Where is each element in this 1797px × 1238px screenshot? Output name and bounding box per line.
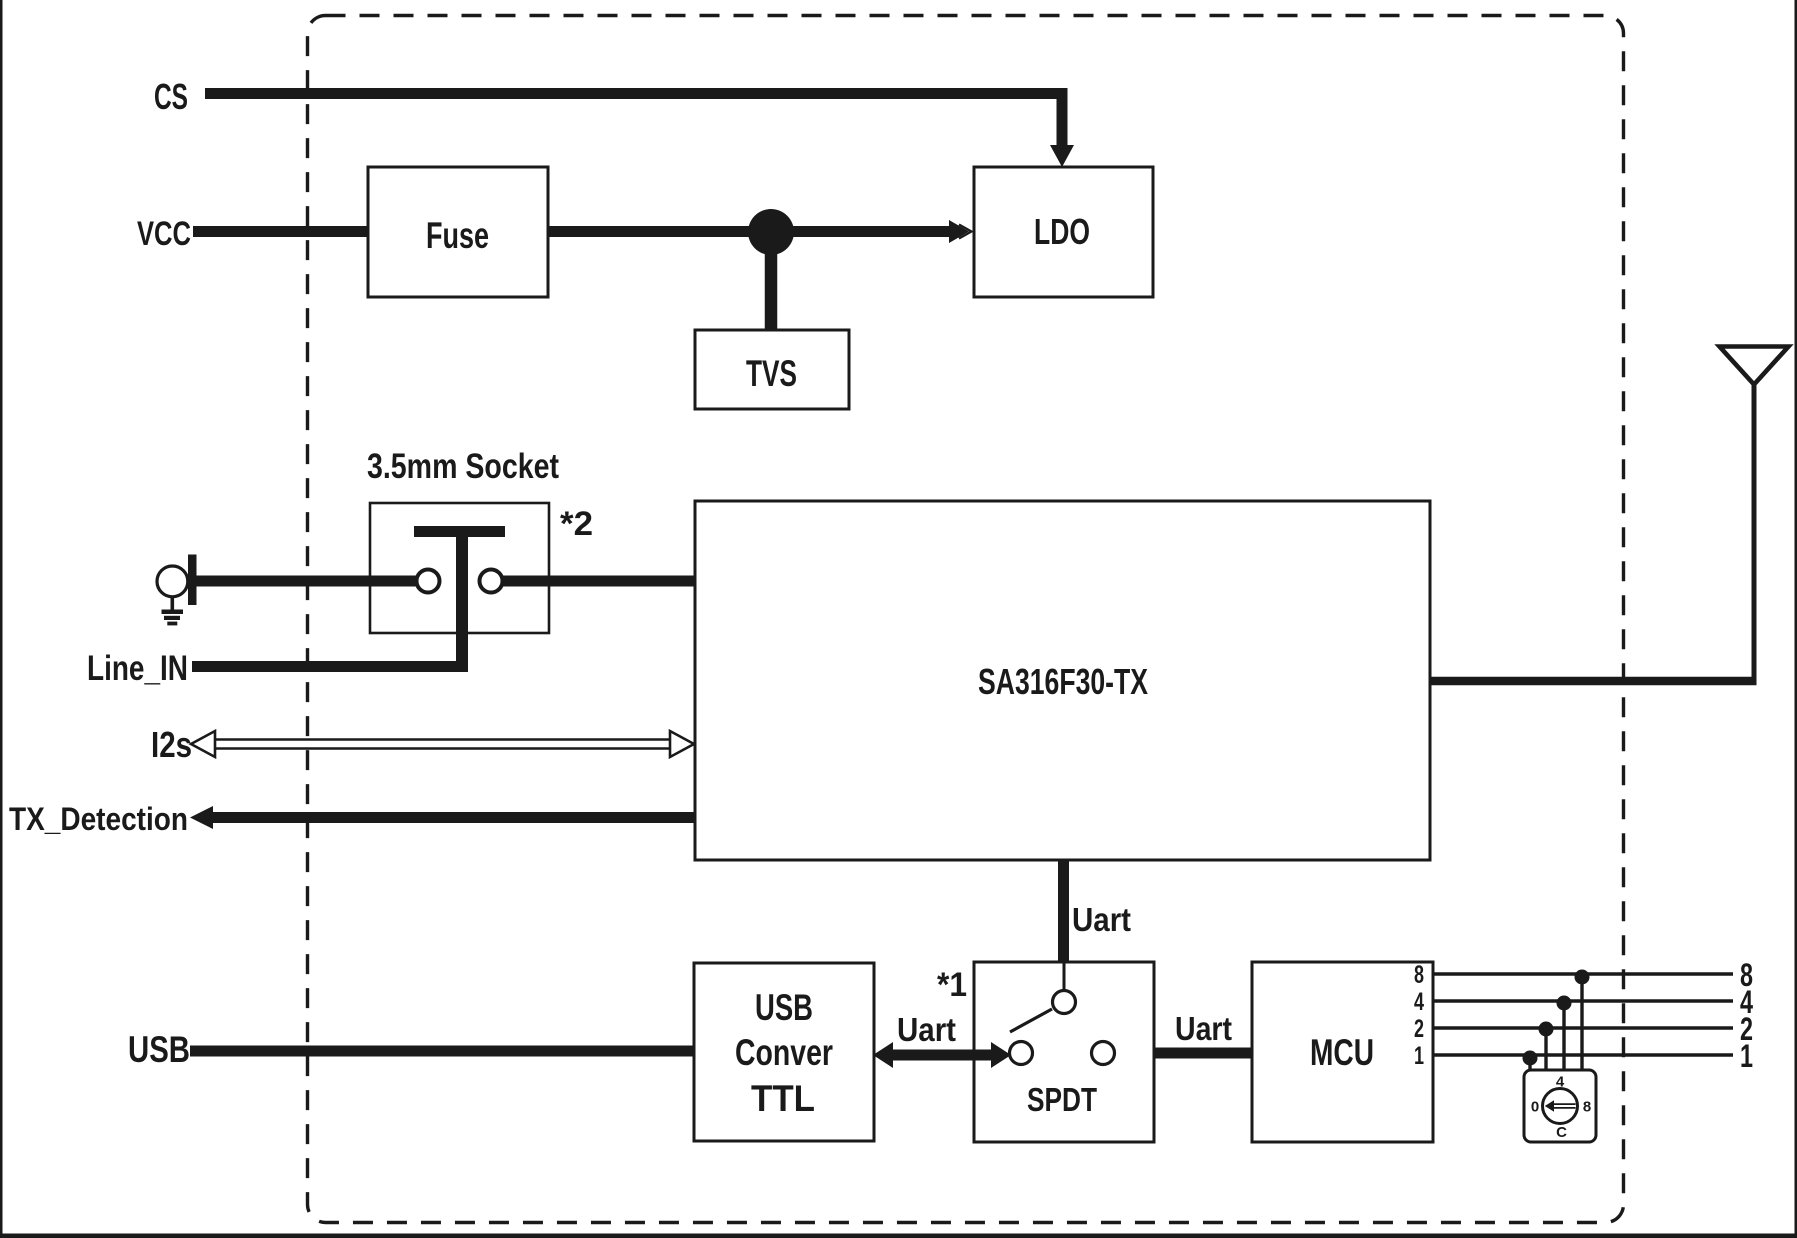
svg-text:C: C	[1556, 1124, 1567, 1141]
svg-text:Uart: Uart	[897, 1011, 956, 1048]
svg-text:USB: USB	[755, 987, 813, 1028]
svg-text:MCU: MCU	[1310, 1032, 1374, 1073]
svg-text:Line_IN: Line_IN	[87, 649, 188, 688]
svg-text:4: 4	[1414, 988, 1424, 1016]
svg-text:SA316F30-TX: SA316F30-TX	[978, 661, 1148, 702]
svg-text:USB: USB	[128, 1029, 190, 1070]
svg-text:4: 4	[1556, 1073, 1565, 1090]
svg-text:VCC: VCC	[137, 215, 191, 253]
svg-text:SPDT: SPDT	[1027, 1081, 1097, 1118]
svg-text:I2s: I2s	[151, 724, 192, 765]
svg-text:0: 0	[1531, 1099, 1539, 1116]
svg-text:TTL: TTL	[751, 1078, 815, 1119]
svg-text:CS: CS	[154, 76, 188, 117]
svg-text:TX_Detection: TX_Detection	[9, 801, 188, 837]
svg-text:Fuse: Fuse	[426, 215, 489, 256]
svg-text:1: 1	[1414, 1042, 1424, 1070]
svg-text:3.5mm Socket: 3.5mm Socket	[367, 447, 559, 486]
svg-text:Conver: Conver	[735, 1032, 833, 1073]
svg-text:TVS: TVS	[746, 353, 797, 394]
svg-text:*1: *1	[937, 966, 967, 1004]
svg-text:*2: *2	[560, 505, 593, 543]
svg-text:LDO: LDO	[1034, 211, 1090, 252]
svg-text:8: 8	[1414, 961, 1424, 989]
svg-text:Uart: Uart	[1175, 1010, 1232, 1047]
svg-text:2: 2	[1414, 1015, 1424, 1043]
svg-text:Uart: Uart	[1072, 901, 1131, 938]
svg-text:1: 1	[1740, 1038, 1753, 1074]
svg-text:8: 8	[1583, 1099, 1591, 1116]
